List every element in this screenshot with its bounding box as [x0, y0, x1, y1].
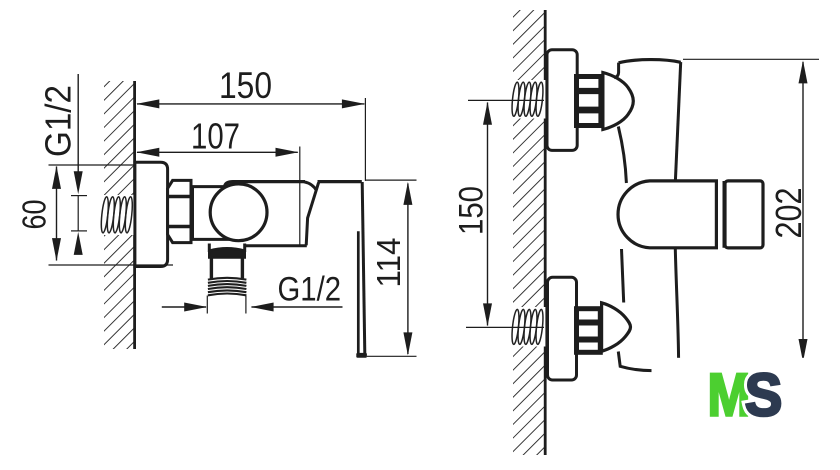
label G1/2 bottom with leader: [162, 296, 343, 314]
outlet collar below valve (left view): [209, 244, 244, 258]
handle top edge (left view): [318, 180, 362, 183]
svg-text:G1/2: G1/2: [278, 271, 342, 309]
dim 60 line with arrows: [52, 166, 61, 261]
knob (right view): [725, 181, 763, 248]
body left edge upper with flare (right view): [614, 63, 618, 78]
outlet thread G1/2 (left view): [208, 278, 247, 296]
dim 107 extension line (outlet axis): [299, 147, 301, 246]
handle base slant edge: [306, 183, 318, 246]
wall (left view) hatched band: [104, 81, 134, 349]
svg-text:60: 60: [16, 200, 53, 230]
dim 60 extension lines: [49, 164, 135, 166]
cartridge cylinder (right view): [618, 181, 716, 248]
top eccentric dome (right view): [603, 73, 633, 130]
dim 107 line with arrows: [136, 148, 298, 157]
connector body between nut and valve (left view): [193, 187, 231, 240]
dim 202 line with arrows: [799, 60, 808, 362]
bottom wall flange (right view): [548, 277, 577, 380]
body left edge mid (right view): [618, 127, 626, 184]
dim 150 right: extension lines: [468, 99, 544, 101]
svg-text:107: 107: [191, 116, 240, 157]
lever blade foot: [356, 353, 367, 358]
lever blade front edge: [357, 231, 360, 353]
svg-text:S: S: [745, 362, 783, 429]
dim 150 extension line (handle rear): [364, 98, 366, 181]
body left edge below cylinder (right view): [622, 249, 624, 303]
svg-text:114: 114: [370, 238, 407, 288]
lever blade lower (right view): [675, 249, 678, 364]
dim 150 line with arrows: [136, 99, 365, 108]
dim 114 extension lines: [366, 179, 417, 181]
svg-text:150: 150: [453, 186, 491, 235]
body bottom edge (left view): [246, 244, 307, 247]
wall face edge (left view): [133, 81, 136, 349]
body top edge (left view): [225, 182, 306, 187]
svg-text:150: 150: [219, 65, 272, 106]
bottom eccentric dome (right view): [602, 303, 631, 352]
wall (right view) hatched band: [513, 10, 545, 455]
body right edge upper (right view): [675, 62, 680, 181]
svg-text:202: 202: [768, 188, 809, 239]
valve circle (left view): [210, 184, 267, 241]
svg-text:G1/2: G1/2: [38, 85, 79, 157]
wall face edge (right view): [544, 10, 547, 455]
bottom inlet nipple thread (right view): [510, 307, 545, 347]
top eccentric nut ladder (right view): [577, 77, 601, 126]
handle right edge / lever back: [362, 182, 365, 353]
top wall flange (right view): [547, 50, 577, 151]
body top cap arc (right view): [619, 60, 681, 63]
G1/2 leader line and arrows: [71, 74, 87, 255]
hex nut (left view): [168, 180, 191, 242]
body corner curve at handle joint: [304, 182, 317, 191]
dim 202: top extension line: [683, 58, 819, 60]
dim 150 right: line with arrows: [483, 102, 492, 327]
top inlet nipple thread (right view): [510, 80, 545, 119]
cylinder groove band: [723, 181, 726, 248]
wall flange (left view): [135, 162, 168, 266]
inlet nipple thread (left view, through wall): [100, 195, 135, 235]
dim 114 line with arrows: [403, 182, 412, 356]
outlet neck (left view): [211, 257, 242, 280]
bottom eccentric nut ladder (right view): [577, 309, 601, 353]
body left edge below dome + bottom cap (right view): [618, 352, 668, 371]
white paste-box that clips drawing bottom right: [652, 358, 840, 470]
